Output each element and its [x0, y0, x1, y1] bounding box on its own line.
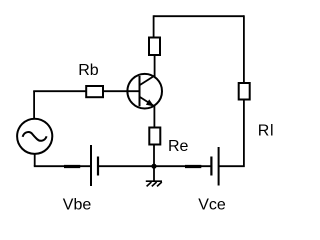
- polarity dash left of Vce: [185, 165, 201, 168]
- AC source V1 circle: [17, 119, 52, 154]
- svg-text:Vbe: Vbe: [63, 197, 92, 214]
- transistor Q1 base bar: [139, 76, 141, 106]
- resistor Re: [149, 128, 160, 145]
- wire Vbe to source corner: [34, 165, 91, 167]
- transistor Q1 emitter stroke: [140, 97, 155, 107]
- wire top rail: [154, 15, 244, 17]
- wire source top: [33, 91, 35, 119]
- svg-text:Rl: Rl: [258, 123, 274, 140]
- wire emitter to Re: [153, 106, 155, 127]
- wire node to Vbe: [98, 165, 154, 167]
- svg-text:Rb: Rb: [78, 62, 99, 79]
- battery Vce long plate: [218, 147, 220, 186]
- wire Rb to base: [104, 90, 140, 92]
- transistor Q1 emitter arrow: [146, 99, 154, 106]
- polarity dash left of Vbe: [64, 165, 80, 168]
- wire top-left rail to Rb: [33, 90, 86, 92]
- wire Vce to node: [154, 165, 211, 167]
- battery Vbe long plate: [90, 145, 92, 186]
- ground symbol: [146, 181, 162, 186]
- resistor Rc (unlabeled, collector): [149, 38, 160, 56]
- svg-text:Vce: Vce: [198, 197, 226, 214]
- resistor Rl: [239, 83, 250, 100]
- wire collector drop from top rail: [153, 15, 155, 36]
- wire Re to node: [153, 145, 155, 166]
- node junction dot: [151, 164, 156, 169]
- wire node to ground: [153, 166, 155, 181]
- AC source sine wave: [23, 132, 47, 141]
- battery Vbe short plate: [97, 157, 99, 176]
- transistor Q1 circle: [127, 74, 162, 109]
- wire right rail lower to Vce: [219, 101, 244, 167]
- transistor Q1 collector stroke: [140, 75, 156, 85]
- resistor Rb: [86, 86, 103, 97]
- wire right rail upper: [243, 15, 245, 82]
- wire source bottom: [34, 154, 36, 167]
- battery Vce short plate: [210, 157, 212, 176]
- svg-text:Re: Re: [168, 138, 189, 155]
- wire collector resistor to transistor: [154, 55, 156, 77]
